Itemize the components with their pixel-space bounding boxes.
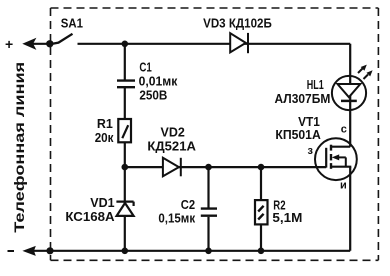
- arrow terminal bottom: [22, 246, 35, 256]
- svg-text:КД521А: КД521А: [147, 140, 196, 154]
- node: C2 bottom junction: [205, 248, 212, 255]
- wire: C2 branch: [207, 167, 209, 207]
- wire: bottom rail: [28, 250, 350, 252]
- wire: top rail: [78, 43, 351, 45]
- svg-text:с: с: [341, 124, 347, 136]
- node: C1 top junction: [122, 41, 129, 48]
- switch SA1 lever: [50, 34, 73, 44]
- zener diode VD1: [116, 202, 133, 216]
- wire: top line from arrow to switch pivot: [28, 43, 50, 45]
- wire: right vertical (anode of HL1 down to VT1 drain): [349, 44, 351, 147]
- svg-text:20к: 20к: [95, 131, 114, 145]
- wire: mid rail: [125, 166, 326, 168]
- node: switch pivot dot: [46, 40, 53, 47]
- svg-text:и: и: [340, 180, 347, 192]
- resistor R2: [255, 200, 268, 224]
- svg-text:VD3 КД102Б: VD3 КД102Б: [203, 16, 272, 30]
- node: VD1 bottom junction: [122, 248, 129, 255]
- wire: R2 branch: [260, 167, 262, 251]
- drain tap: [331, 146, 350, 148]
- node: R2 bottom junction: [258, 248, 265, 255]
- svg-text:250В: 250В: [139, 89, 167, 103]
- node: R2 top junction: [258, 164, 265, 171]
- svg-text:C1: C1: [139, 60, 151, 74]
- svg-text:VT1: VT1: [298, 115, 320, 129]
- node: C2 top junction: [205, 164, 212, 171]
- source tap: [331, 166, 351, 168]
- substrate arrow: [336, 156, 346, 158]
- resistor R1: [118, 119, 131, 142]
- svg-text:С2: С2: [181, 198, 195, 212]
- svg-text:+: +: [5, 36, 13, 52]
- minus terminal label: [8, 250, 15, 252]
- gate plate: [325, 148, 327, 168]
- svg-text:SA1: SA1: [61, 17, 83, 31]
- capacitor C1: [117, 81, 135, 88]
- svg-text:5,1М: 5,1М: [272, 211, 302, 225]
- LED HL1: [332, 65, 373, 111]
- svg-text:КС168А: КС168А: [65, 210, 114, 224]
- arrow terminal top: [22, 38, 36, 50]
- svg-text:0,01мк: 0,01мк: [139, 75, 178, 89]
- diode VD3: [230, 33, 248, 53]
- channel segments: [330, 145, 332, 151]
- svg-text:КП501А: КП501А: [275, 128, 320, 142]
- diode VD2: [163, 158, 181, 177]
- svg-text:R1: R1: [97, 117, 113, 131]
- node: mid rail left junction: [122, 164, 129, 171]
- svg-text:VD1: VD1: [90, 196, 114, 210]
- svg-text:HL1: HL1: [307, 78, 324, 92]
- svg-text:0,15мк: 0,15мк: [158, 212, 195, 226]
- wire: source down to bottom rail: [349, 167, 351, 251]
- svg-text:АЛ307БМ: АЛ307БМ: [275, 92, 331, 106]
- svg-text:R2: R2: [273, 198, 285, 212]
- svg-text:Телефонная линия: Телефонная линия: [11, 62, 27, 233]
- transistor VT1 (MOSFET): [315, 138, 357, 180]
- svg-text:VD2: VD2: [161, 126, 185, 140]
- svg-text:з: з: [308, 145, 314, 157]
- wire: C1/R1/VD1 vertical branch: [124, 44, 126, 80]
- dashed enclosure frame: [51, 8, 379, 260]
- capacitor C2: [201, 209, 217, 216]
- node: bottom-left junction: [46, 247, 53, 254]
